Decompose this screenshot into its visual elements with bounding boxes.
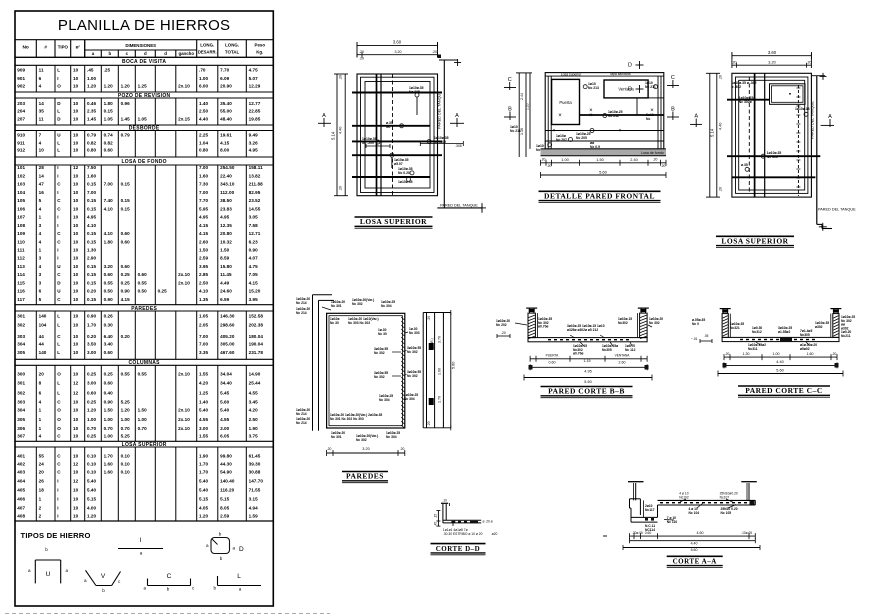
svg-text:3.20: 3.20 [104, 264, 114, 269]
tipo L shape [218, 585, 262, 587]
svg-text:1: 1 [39, 248, 42, 253]
svg-text:2x.15: 2x.15 [178, 116, 190, 121]
svg-text:3.26: 3.26 [249, 140, 259, 145]
svg-text:.15: .15 [434, 514, 438, 519]
svg-text:.10: .10 [442, 499, 447, 503]
svg-text:1.50: 1.50 [596, 158, 603, 162]
svg-text:10: 10 [73, 372, 79, 377]
svg-text:0.20: 0.20 [87, 289, 97, 294]
svg-text:C: C [57, 434, 61, 439]
svg-text:Kg.: Kg. [256, 50, 263, 55]
svg-text:U: U [46, 571, 51, 578]
svg-text:.45: .45 [434, 522, 438, 527]
d3 circle callout right edge [804, 112, 808, 116]
svg-text:4: 4 [39, 206, 42, 211]
svg-text:C: C [57, 198, 61, 203]
svg-text:10: 10 [73, 434, 79, 439]
svg-text:18: 18 [39, 488, 45, 493]
svg-text:ø0.70ø: ø0.70ø [538, 325, 548, 329]
svg-text:10: 10 [73, 148, 79, 153]
svg-text:10: 10 [73, 272, 79, 277]
svg-text:a: a [143, 586, 146, 591]
svg-text:5.40: 5.40 [220, 408, 230, 413]
svg-text:5.15: 5.15 [199, 497, 209, 502]
svg-text:11: 11 [39, 68, 44, 73]
svg-text:D: D [57, 280, 61, 285]
svg-text:307: 307 [17, 434, 25, 439]
svg-text:1.35: 1.35 [199, 297, 209, 302]
svg-text:1.05: 1.05 [199, 314, 209, 319]
d1 rebar circle callout 1 [415, 93, 419, 97]
svg-text:3: 3 [39, 280, 42, 285]
svg-text:24.60: 24.60 [220, 289, 232, 294]
svg-text:#: # [44, 45, 47, 51]
svg-text:1.25: 1.25 [199, 390, 209, 395]
d1 rebar circle callout 2 [400, 124, 404, 128]
svg-text:115: 115 [17, 280, 25, 285]
svg-text:2.59: 2.59 [199, 256, 209, 261]
svg-text:3.95: 3.95 [199, 264, 209, 269]
svg-text:35: 35 [39, 109, 45, 114]
svg-text:0.80: 0.80 [87, 148, 97, 153]
svg-text:10: 10 [73, 68, 79, 73]
d7 title [431, 543, 486, 545]
svg-text:O: O [57, 372, 61, 377]
d3 circle callout low [745, 167, 749, 171]
svg-text:Nc305: Nc305 [602, 348, 612, 352]
tipo D shape [211, 538, 230, 554]
svg-text:10: 10 [73, 101, 79, 106]
svg-text:44.30: 44.30 [220, 462, 232, 467]
svg-text:4.40: 4.40 [339, 127, 343, 134]
svg-text:12.29: 12.29 [249, 84, 261, 89]
svg-text:4.10: 4.10 [104, 206, 114, 211]
svg-text:254.50: 254.50 [220, 165, 235, 170]
svg-text:3.00: 3.00 [220, 426, 230, 431]
svg-text:901: 901 [17, 76, 25, 81]
svg-text:0.82: 0.82 [87, 140, 97, 145]
d1 left dimension lines [336, 74, 338, 196]
svg-text:10: 10 [73, 248, 79, 253]
svg-text:14: 14 [39, 101, 45, 106]
svg-text:Nc 205: Nc 205 [576, 136, 587, 140]
svg-text:Nc 211: Nc 211 [510, 129, 521, 133]
svg-text:Nc 105: Nc 105 [721, 511, 732, 515]
svg-text:.20: .20 [719, 187, 723, 192]
svg-text:0.25: 0.25 [87, 399, 97, 404]
svg-text:10: 10 [73, 182, 79, 187]
svg-text:0.25: 0.25 [121, 280, 131, 285]
svg-text:PLANILLA DE HIERROS: PLANILLA DE HIERROS [58, 17, 230, 34]
svg-text:1.20: 1.20 [87, 514, 97, 519]
svg-text:407: 407 [17, 506, 25, 511]
d2 rebar circle right [654, 85, 658, 89]
d1 title [355, 216, 433, 218]
svg-text:PUERTA: PUERTA [546, 354, 560, 358]
svg-text:10.32: 10.32 [220, 239, 232, 244]
svg-text:I: I [57, 165, 58, 170]
svg-text:105: 105 [17, 198, 25, 203]
d4 title [342, 471, 388, 473]
svg-text:12: 12 [73, 390, 79, 395]
svg-text:PARED CORTE B–B: PARED CORTE B–B [548, 387, 625, 396]
svg-text:0.10: 0.10 [87, 454, 97, 459]
svg-text:Nc: Nc [646, 117, 650, 121]
table section banner PAREDES [15, 304, 273, 306]
svg-text:5.60: 5.60 [584, 380, 591, 384]
svg-text:C: C [167, 573, 172, 580]
svg-text:301: 301 [17, 314, 25, 319]
svg-text:0.25: 0.25 [121, 272, 131, 277]
svg-text:3.05: 3.05 [249, 215, 259, 220]
svg-text:Nc211: Nc211 [841, 334, 851, 338]
svg-text:.30.30 ESTRIBO ø 10 ø 20: .30.30 ESTRIBO ø 10 ø 20 [443, 532, 483, 536]
svg-text:48.40: 48.40 [220, 116, 232, 121]
svg-text:4.15: 4.15 [249, 280, 259, 285]
svg-text:gancho: gancho [178, 51, 194, 56]
svg-text:5.14: 5.14 [710, 128, 715, 137]
svg-text:.30ø.05: .30ø.05 [632, 531, 643, 535]
svg-text:10: 10 [73, 314, 79, 319]
svg-text:1.60: 1.60 [199, 173, 209, 178]
svg-text:Nc 30: Nc 30 [330, 321, 339, 325]
svg-text:Nc 303 Nc 302: Nc 303 Nc 302 [348, 321, 370, 325]
svg-text:20.80: 20.80 [220, 231, 232, 236]
svg-text:19.61: 19.61 [220, 133, 232, 138]
svg-text:3.35: 3.35 [199, 350, 209, 355]
svg-text:10: 10 [73, 173, 79, 178]
svg-text:0.55: 0.55 [138, 280, 148, 285]
d4 wall rectangle [327, 313, 405, 428]
svg-text:10: 10 [73, 215, 79, 220]
svg-text:0.20: 0.20 [121, 334, 131, 339]
svg-text:1.50: 1.50 [220, 248, 230, 253]
svg-text:0.15: 0.15 [87, 280, 97, 285]
svg-text:Nc117: Nc117 [645, 508, 655, 512]
svg-text:106: 106 [17, 206, 25, 211]
d8 dim line 1 [630, 535, 756, 537]
svg-text:1.60: 1.60 [104, 470, 114, 475]
svg-text:I: I [57, 506, 58, 511]
svg-text:0.15: 0.15 [87, 182, 97, 187]
svg-text:0.60: 0.60 [138, 272, 148, 277]
svg-text:4: 4 [39, 434, 42, 439]
svg-text:0.25: 0.25 [87, 372, 97, 377]
svg-text:Nc 211: Nc 211 [645, 85, 656, 89]
svg-text:.20: .20 [359, 57, 364, 61]
svg-text:6.23: 6.23 [249, 239, 259, 244]
d5 left wall [528, 313, 535, 338]
svg-text:.305: .305 [455, 144, 462, 148]
svg-text:.20: .20 [547, 164, 552, 168]
svg-text:1.55: 1.55 [199, 372, 209, 377]
svg-text:1: 1 [39, 417, 42, 422]
d8 dim line 3 [623, 547, 760, 549]
svg-text:a: a [233, 546, 236, 551]
svg-text:Nc 301 Nc 302 N: Nc 301 Nc 302 Nc 303 [330, 417, 364, 421]
svg-text:3.20: 3.20 [768, 61, 775, 65]
svg-text:54.90: 54.90 [220, 470, 232, 475]
svg-text:I: I [57, 514, 58, 519]
svg-text:Nc 214: Nc 214 [296, 412, 307, 416]
svg-text:1: 1 [39, 215, 42, 220]
svg-text:LONG.: LONG. [225, 43, 239, 48]
d4 bottom dimension [327, 452, 405, 454]
svg-text:71.55: 71.55 [249, 488, 261, 493]
svg-text:LONG.: LONG. [200, 43, 214, 48]
svg-text:Ventana: Ventana [618, 87, 634, 92]
svg-text:1.30: 1.30 [743, 352, 750, 356]
svg-text:Nc 214: Nc 214 [296, 301, 307, 305]
svg-text:117: 117 [17, 297, 25, 302]
svg-text:1.20: 1.20 [199, 514, 209, 519]
svg-text:211.88: 211.88 [249, 182, 263, 187]
svg-text:LOSA SUPERIOR: LOSA SUPERIOR [122, 442, 167, 448]
svg-text:1.45: 1.45 [121, 116, 131, 121]
table section banner DESBORDE [15, 124, 273, 126]
svg-text:a: a [206, 543, 209, 548]
d4 left boundary corner lines [312, 295, 314, 431]
d1 rebar circle callout 5 [410, 171, 414, 175]
svg-text:1.25: 1.25 [138, 84, 148, 89]
svg-text:4.55: 4.55 [199, 417, 209, 422]
svg-text:1ø10ø.35: 1ø10ø.35 [795, 107, 810, 111]
svg-text:3: 3 [39, 256, 42, 261]
svg-text:PARED DEL TANQUE: PARED DEL TANQUE [438, 91, 442, 129]
svg-text:10: 10 [73, 426, 79, 431]
svg-text:0.10: 0.10 [87, 462, 97, 467]
svg-text:902: 902 [17, 84, 25, 89]
svg-text:0.15: 0.15 [87, 206, 97, 211]
d1 inner rectangle 1 [361, 77, 435, 192]
svg-text:0.80: 0.80 [199, 148, 209, 153]
d3 opening sub-rect [770, 84, 806, 105]
svg-text:Nc 304: Nc 304 [379, 398, 390, 402]
table section banner LOSA DE FONDO [15, 156, 273, 158]
svg-text:10: 10 [73, 264, 79, 269]
svg-text:44: 44 [39, 342, 45, 347]
svg-text:11: 11 [39, 116, 44, 121]
svg-text:I: I [57, 76, 58, 81]
svg-text:.05: .05 [704, 334, 709, 338]
svg-text:0.60: 0.60 [121, 231, 131, 236]
d6 wall inner rebar lines [729, 314, 731, 338]
svg-text:4.15: 4.15 [199, 223, 209, 228]
svg-text:20: 20 [39, 372, 45, 377]
svg-text:9.49: 9.49 [249, 133, 259, 138]
svg-text:1.55: 1.55 [199, 434, 209, 439]
svg-text:0.40: 0.40 [104, 390, 114, 395]
svg-text:4.40: 4.40 [776, 360, 783, 364]
svg-text:4.49: 4.49 [220, 280, 230, 285]
svg-text:Nc 0.9: Nc 0.9 [590, 145, 600, 149]
d5 dim line 2 [530, 366, 647, 368]
svg-text:203: 203 [17, 101, 25, 106]
table section banner LOSA SUPERIOR [15, 440, 273, 442]
svg-text:2x.10: 2x.10 [178, 372, 190, 377]
svg-text:4.07: 4.07 [249, 256, 259, 261]
svg-text:0.15: 0.15 [121, 182, 131, 187]
svg-text:231.78: 231.78 [249, 350, 264, 355]
d2 puerta [552, 79, 580, 124]
svg-text:.10ø.05: .10ø.05 [741, 531, 752, 535]
svg-text:102: 102 [17, 173, 25, 178]
svg-text:O: O [57, 84, 61, 89]
svg-text:PARED DEL TANQUE: PARED DEL TANQUE [811, 101, 815, 139]
d3 right L boundary [811, 75, 825, 77]
svg-text:3.00: 3.00 [87, 380, 97, 385]
svg-text:15.20: 15.20 [249, 289, 261, 294]
svg-text:0.55: 0.55 [104, 280, 114, 285]
svg-text:C: C [57, 272, 61, 277]
svg-text:Nc 305: Nc 305 [409, 90, 420, 94]
svg-text:5.40: 5.40 [199, 479, 209, 484]
svg-text:1: 1 [39, 497, 42, 502]
svg-text:4.10: 4.10 [104, 231, 114, 236]
svg-text:1.60: 1.60 [104, 462, 114, 467]
svg-text:D: D [239, 546, 244, 553]
svg-text:2x.10: 2x.10 [178, 84, 190, 89]
svg-text:2.50: 2.50 [199, 280, 209, 285]
d6 left wall [722, 314, 728, 338]
svg-text:7: 7 [39, 133, 42, 138]
svg-text:I: I [140, 537, 142, 544]
svg-text:5.60: 5.60 [220, 399, 230, 404]
svg-text:0.70: 0.70 [104, 426, 114, 431]
svg-text:6: 6 [39, 289, 42, 294]
svg-text:.20: .20 [327, 447, 332, 451]
svg-text:No: No [22, 45, 28, 51]
svg-text:8.59: 8.59 [220, 256, 230, 261]
svg-text:Losa de fondo: Losa de fondo [641, 151, 664, 155]
svg-text:0.60: 0.60 [104, 148, 114, 153]
svg-text:DESARR.: DESARR. [198, 50, 217, 55]
svg-text:C: C [57, 182, 61, 187]
svg-text:1.60: 1.60 [807, 352, 814, 356]
svg-text:2x.10: 2x.10 [178, 417, 190, 422]
svg-text:0.70: 0.70 [138, 426, 148, 431]
svg-text:a: a [140, 551, 143, 556]
svg-text:2x.10: 2x.10 [178, 426, 190, 431]
svg-text:5.40: 5.40 [87, 488, 97, 493]
svg-text:6: 6 [39, 390, 42, 395]
svg-text:.20: .20 [807, 61, 812, 65]
svg-text:10: 10 [73, 497, 79, 502]
svg-text:Nc 212: Nc 212 [608, 114, 619, 118]
svg-text:2.90: 2.90 [87, 256, 97, 261]
svg-text:12: 12 [73, 380, 79, 385]
tipo C shape [148, 585, 191, 587]
svg-text:Nc102: Nc102 [679, 495, 689, 499]
svg-text:4: 4 [39, 264, 42, 269]
svg-text:1.60: 1.60 [438, 368, 442, 375]
svg-text:3: 3 [39, 272, 42, 277]
svg-text:305: 305 [17, 417, 25, 422]
svg-text:4.10: 4.10 [199, 289, 209, 294]
d8 title [667, 555, 723, 557]
svg-text:7.70: 7.70 [199, 198, 209, 203]
svg-text:.20: .20 [661, 164, 666, 168]
svg-text:Nc 30: Nc 30 [378, 332, 387, 336]
svg-text:ø20: ø20 [492, 532, 498, 536]
svg-text:I: I [57, 173, 58, 178]
svg-text:Nc 302ø: Nc 302ø [739, 100, 753, 104]
svg-text:306: 306 [17, 426, 25, 431]
svg-text:1.90: 1.90 [249, 426, 259, 431]
svg-text:343.10: 343.10 [220, 182, 235, 187]
svg-text:10: 10 [73, 297, 79, 302]
svg-text:3.45: 3.45 [249, 399, 259, 404]
svg-text:0.60: 0.60 [104, 380, 114, 385]
svg-text:0.60: 0.60 [121, 239, 131, 244]
svg-text:PARED CORTE C–C: PARED CORTE C–C [745, 386, 823, 395]
svg-text:2.50: 2.50 [249, 417, 259, 422]
svg-text:Nc 213: Nc 213 [588, 86, 599, 90]
svg-text:L: L [57, 314, 60, 319]
svg-text:1.20: 1.20 [87, 408, 97, 413]
svg-text:0.79: 0.79 [87, 133, 97, 138]
svg-text:5.60: 5.60 [452, 362, 456, 369]
svg-text:10: 10 [73, 76, 79, 81]
svg-text:U: U [57, 289, 61, 294]
d2 bottom dimension lines [541, 162, 667, 164]
d3 inner rect 2 [739, 80, 805, 190]
svg-text:23.52: 23.52 [249, 198, 261, 203]
svg-text:10: 10 [73, 109, 79, 114]
svg-text:Losa superior: Losa superior [561, 72, 582, 76]
svg-text:0.15: 0.15 [87, 239, 97, 244]
svg-text:.20: .20 [653, 158, 658, 162]
svg-text:1.59: 1.59 [249, 514, 259, 519]
svg-text:C: C [57, 399, 61, 404]
svg-text:108: 108 [17, 223, 25, 228]
svg-text:0.82: 0.82 [104, 140, 114, 145]
svg-text:a: a [66, 568, 69, 573]
svg-text:10: 10 [73, 506, 79, 511]
svg-text:Nc 112: Nc 112 [625, 348, 636, 352]
svg-text:Nc 304: Nc 304 [381, 304, 392, 308]
svg-text:301: 301 [17, 380, 25, 385]
table PLANILLA DE HIERROS outer border [15, 11, 273, 606]
svg-text:DIMENSIONES: DIMENSIONES [125, 43, 156, 48]
d6 dim line 2 [724, 364, 837, 366]
d5 dim line 3 [524, 377, 652, 379]
svg-text:4.40: 4.40 [719, 123, 723, 130]
svg-text:0.15: 0.15 [87, 231, 97, 236]
d1 inner rectangle 2 [365, 82, 430, 189]
svg-text:.20: .20 [427, 316, 431, 321]
svg-text:b: b [213, 586, 216, 591]
svg-text:c: c [126, 51, 129, 56]
svg-text:Peso: Peso [255, 43, 266, 48]
svg-text:107: 107 [17, 215, 25, 220]
d1 rebar circle callout 4 [390, 153, 394, 157]
svg-text:V: V [101, 573, 106, 580]
svg-text:0.25: 0.25 [158, 289, 168, 294]
svg-text:a: a [92, 51, 95, 56]
svg-text:.20: .20 [719, 75, 723, 80]
svg-text:0.10: 0.10 [121, 454, 131, 459]
svg-text:1.70: 1.70 [199, 470, 209, 475]
svg-text:7.05: 7.05 [249, 272, 259, 277]
svg-text:5.14: 5.14 [331, 131, 336, 140]
svg-text:0.60: 0.60 [121, 264, 131, 269]
svg-text:4.15: 4.15 [220, 140, 230, 145]
svg-text:10: 10 [73, 470, 79, 475]
svg-text:POZO DE REVISION: POZO DE REVISION [118, 93, 171, 99]
svg-text:402: 402 [17, 462, 25, 467]
d1 thick horizontal rebar lines [352, 92, 442, 94]
